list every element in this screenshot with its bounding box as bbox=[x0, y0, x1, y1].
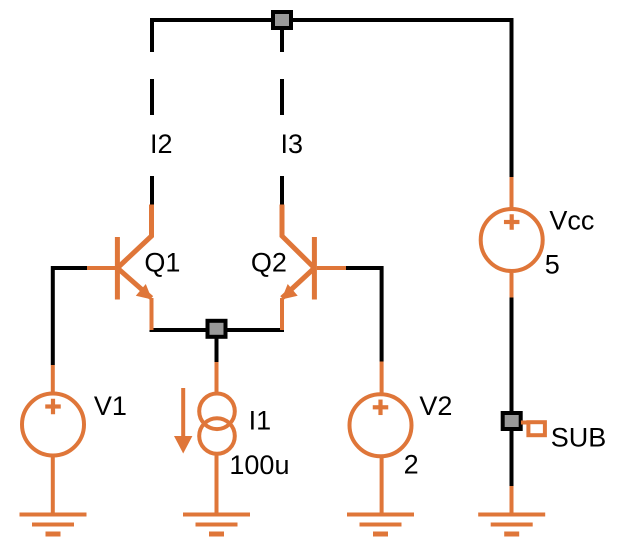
svg-text:SUB: SUB bbox=[551, 423, 607, 453]
svg-text:V1: V1 bbox=[94, 391, 127, 421]
svg-text:Q2: Q2 bbox=[251, 248, 287, 278]
svg-text:V2: V2 bbox=[419, 391, 452, 421]
svg-text:100u: 100u bbox=[229, 450, 289, 480]
svg-text:Vcc: Vcc bbox=[549, 205, 594, 235]
svg-text:I1: I1 bbox=[249, 405, 272, 435]
svg-text:Q1: Q1 bbox=[144, 248, 180, 278]
svg-text:I2: I2 bbox=[150, 129, 173, 159]
svg-text:5: 5 bbox=[545, 249, 560, 279]
svg-text:I3: I3 bbox=[281, 129, 304, 159]
svg-text:2: 2 bbox=[404, 449, 419, 479]
